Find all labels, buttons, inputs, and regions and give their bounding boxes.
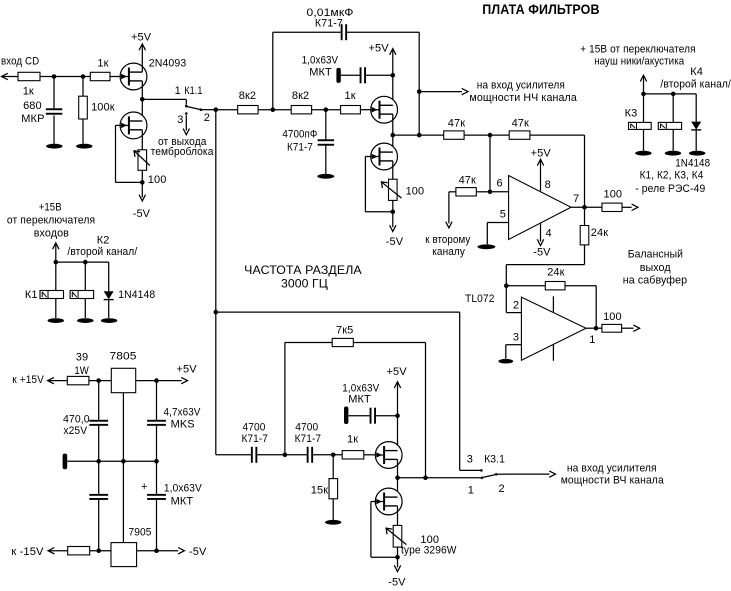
wire input to gate xyxy=(40,76,120,78)
wire Q2 source to trimmer xyxy=(141,130,143,150)
svg-text:МКТ: МКТ xyxy=(309,66,332,78)
svg-text:/второй канал/: /второй канал/ xyxy=(660,78,731,90)
wire Q4 gate feedback xyxy=(365,157,392,212)
wire relay bus left xyxy=(56,261,109,263)
svg-text:100: 100 xyxy=(603,311,622,323)
node N output U1 xyxy=(582,205,587,210)
node P2 xyxy=(83,260,88,265)
svg-text:100: 100 xyxy=(604,188,623,200)
svg-text:100: 100 xyxy=(148,174,167,186)
resistor 100 output U2 xyxy=(602,311,622,332)
svg-text:К1.1: К1.1 xyxy=(184,85,202,97)
svg-text:3: 3 xyxy=(467,454,473,466)
label К1 К2 К3 К4 реле РЭС-49 xyxy=(635,170,705,195)
capacitor 4700pF K71-7 shunt xyxy=(282,110,334,174)
wire 47k to 47k xyxy=(464,134,509,136)
ground K4 xyxy=(665,151,681,156)
node P1 xyxy=(54,260,59,265)
svg-text:на вход усилителя: на вход усилителя xyxy=(477,80,565,92)
ground under 4700pF xyxy=(317,174,334,179)
resistor 39 1W xyxy=(67,376,89,384)
switch K3.1 contact 1 xyxy=(468,477,483,497)
ground under 100k xyxy=(76,144,92,149)
capacitor 680 MKP xyxy=(21,77,62,144)
svg-text:к -15V: к -15V xyxy=(11,546,44,558)
pin 2 wire xyxy=(506,300,521,313)
resistor 47k input xyxy=(444,118,466,140)
wire node D down to HPF input xyxy=(215,110,217,455)
svg-text:+5V: +5V xyxy=(387,366,408,378)
wire Q5 source rail xyxy=(397,459,399,497)
svg-text:2: 2 xyxy=(513,300,519,312)
svg-text:8: 8 xyxy=(545,179,551,191)
svg-text:1,0х63V: 1,0х63V xyxy=(302,54,339,66)
wire PSU mid rail xyxy=(67,460,156,462)
diode 1N4148 left xyxy=(104,262,156,318)
ground under 680 cap xyxy=(46,144,62,149)
power -5V HPF xyxy=(388,557,406,588)
resistor 24k to U2 xyxy=(580,226,608,245)
power stub bottom U2 xyxy=(552,345,554,361)
wire Q6 gate feedback xyxy=(371,502,398,558)
svg-text:3: 3 xyxy=(513,331,519,343)
svg-text:К71-7: К71-7 xyxy=(315,18,343,30)
wire HPF input xyxy=(216,454,251,456)
label +15В от переключателя входов xyxy=(7,201,95,239)
power +5V stage1 xyxy=(131,31,152,72)
svg-text:К71-7: К71-7 xyxy=(295,433,322,445)
node T1 feedback tap HPF xyxy=(283,453,288,458)
svg-text:2N4093: 2N4093 xyxy=(149,58,187,70)
pin 3 wire xyxy=(506,331,522,358)
svg-text:6: 6 xyxy=(497,178,503,190)
ground K1 xyxy=(48,318,64,323)
relay K3 coil xyxy=(625,94,652,151)
power -5V stage1 xyxy=(133,182,151,220)
ground bar PSU xyxy=(63,454,68,470)
svg-text:8к2: 8к2 xyxy=(239,90,256,102)
svg-text:15к: 15к xyxy=(311,485,328,497)
ground U2 pin3 xyxy=(498,359,513,364)
wire contact 3 from tone block with arrow xyxy=(183,115,189,135)
svg-text:+5V: +5V xyxy=(531,147,552,159)
regulator 7805 label xyxy=(110,351,137,363)
capacitor 4700 K71-7 first xyxy=(242,422,269,463)
svg-text:5: 5 xyxy=(500,208,506,220)
svg-text:К71-7: К71-7 xyxy=(242,433,269,445)
node H on +5V rail xyxy=(391,73,396,78)
svg-text:каналу: каналу xyxy=(432,246,465,258)
wire Q2 gate feedback xyxy=(116,125,143,182)
node F cap tap xyxy=(324,107,329,112)
power +15V arrow relay right xyxy=(640,75,646,94)
node S branch xyxy=(214,310,219,315)
svg-text:39: 39 xyxy=(76,351,88,363)
svg-text:24к: 24к xyxy=(591,227,608,239)
wire trimmer to node X xyxy=(397,547,399,557)
title label ПЛАТА ФИЛЬТРОВ xyxy=(482,2,599,17)
node PS2 xyxy=(154,378,159,383)
resistor 7k5 feedback HPF xyxy=(285,324,426,477)
wire 47k to node M xyxy=(476,191,490,193)
wire resistor to 7905 xyxy=(90,550,111,552)
svg-text:4,7х63V: 4,7х63V xyxy=(164,407,201,419)
node T2 15k tap xyxy=(331,453,336,458)
svg-text:4700: 4700 xyxy=(295,422,318,434)
svg-text:темброблока: темброблока xyxy=(151,146,215,158)
capacitor 4700 K71-7 second xyxy=(295,422,322,463)
wire node D to R 8k2 xyxy=(216,109,238,111)
wire 7805 to +5V arrow xyxy=(136,364,198,384)
wire 1k to Q5 gate xyxy=(364,454,376,456)
node E feedback tap xyxy=(271,107,276,112)
wire Q4 source to trimmer xyxy=(392,161,394,179)
label ЧАСТОТА РАЗДЕЛА 3000 ГЦ xyxy=(244,264,362,291)
svg-text:+5V: +5V xyxy=(177,364,198,376)
wire between 8k2 resistors xyxy=(258,109,291,111)
wire feedback top to output column xyxy=(530,134,585,136)
svg-text:1N4148: 1N4148 xyxy=(675,158,710,170)
svg-text:100к: 100к xyxy=(91,102,115,114)
ground diode right xyxy=(689,151,705,156)
switch K3.1 contact 3 xyxy=(467,454,483,472)
resistor 1k input xyxy=(18,72,40,97)
label к +15V with arrow xyxy=(12,374,67,386)
svg-text:выход: выход xyxy=(640,262,671,274)
label TL072 xyxy=(465,293,495,305)
svg-text:1W: 1W xyxy=(74,365,89,377)
power -5V LPF xyxy=(386,212,404,248)
node I LPF output xyxy=(391,133,396,138)
wire node B to switch K1.1 xyxy=(142,99,186,104)
wire 8k2 to 1k xyxy=(312,109,341,111)
wire contact2 to node D xyxy=(202,109,216,111)
pin 6 label xyxy=(497,178,503,190)
svg-text:от переключателя: от переключателя xyxy=(7,214,95,226)
svg-text:к второму: к второму xyxy=(425,234,470,246)
node PS5 xyxy=(154,459,159,464)
node K xyxy=(391,210,396,215)
pin 1 output wire xyxy=(586,328,602,346)
svg-text:1к: 1к xyxy=(345,90,356,102)
node M pin6 junction xyxy=(488,190,493,195)
switch K1.1 contact 1 xyxy=(175,85,188,107)
svg-text:4700: 4700 xyxy=(243,422,266,434)
ground K2 xyxy=(77,318,93,323)
power stub top U2 xyxy=(552,296,554,312)
svg-text:+ 15В от переключателя: + 15В от переключателя xyxy=(580,44,695,56)
node D xyxy=(214,107,219,112)
switch K3.1 arm xyxy=(483,475,496,478)
node V HPF output xyxy=(395,476,400,481)
svg-text:мощности ВЧ канала: мощности ВЧ канала xyxy=(561,474,665,486)
svg-text:MKS: MKS xyxy=(171,418,195,430)
wire Q3 source rail xyxy=(392,114,394,152)
regulator 7805 xyxy=(111,368,135,392)
svg-text:type 3296W: type 3296W xyxy=(401,545,457,557)
node PS4 xyxy=(121,459,126,464)
wire 7905 to -5V arrow xyxy=(137,546,207,558)
node PS3 xyxy=(96,459,101,464)
node L xyxy=(488,133,493,138)
transistor Q2 lower JFET xyxy=(120,112,147,139)
node вход CD label xyxy=(1,56,39,68)
svg-text:7: 7 xyxy=(573,193,579,205)
transistor Q3 upper JFET LPF xyxy=(371,96,398,123)
label на вход усилителя мощности ВЧ канала xyxy=(561,462,665,486)
svg-text:МКТ: МКТ xyxy=(171,496,194,508)
svg-text:1N4148: 1N4148 xyxy=(118,289,155,301)
transistor Q6 lower JFET HPF xyxy=(375,488,402,515)
capacitor 0.01uF K71-7 feedback xyxy=(273,7,419,135)
svg-text:+5V: +5V xyxy=(369,42,390,54)
svg-text:вход CD: вход CD xyxy=(1,56,39,68)
svg-text:1: 1 xyxy=(468,484,474,496)
svg-text:+5V: +5V xyxy=(131,31,152,43)
svg-text:2: 2 xyxy=(499,483,505,495)
power -5V U1 pin4 xyxy=(533,223,552,258)
trimmer 100 type 3296W xyxy=(386,525,457,556)
capacitor 1.0x63V MKT bypass xyxy=(302,54,393,83)
wire Q1 source to Q2 drain xyxy=(141,81,143,121)
node Q2 xyxy=(671,92,676,97)
svg-text:К1: К1 xyxy=(25,289,38,301)
switch K1.1 label xyxy=(184,85,202,97)
node W feedback junction xyxy=(423,476,428,481)
wire feedback column xyxy=(584,135,586,225)
svg-text:1к: 1к xyxy=(347,433,358,445)
wire trimmer to node C xyxy=(141,170,143,182)
svg-text:47к: 47к xyxy=(459,174,476,186)
svg-text:К3: К3 xyxy=(625,107,638,119)
label к -15V with arrow xyxy=(11,546,67,558)
svg-text:470,0: 470,0 xyxy=(63,414,90,426)
relay K2 coil xyxy=(70,262,94,318)
svg-text:ТL072: ТL072 xyxy=(465,293,495,305)
switch K3.1 label xyxy=(484,454,505,466)
label к второму каналу xyxy=(425,234,470,258)
wire cap2 to 1k xyxy=(313,454,342,456)
svg-text:+15В: +15В xyxy=(39,201,62,213)
svg-text:мощности НЧ канала: мощности НЧ канала xyxy=(469,92,577,104)
node R output U2 xyxy=(594,326,599,331)
capacitor 1.0x63V MKT polarized xyxy=(141,461,202,550)
capacitor below 470 xyxy=(89,461,108,550)
resistor 100 output U1 xyxy=(602,188,622,211)
switch K3.1 contact 2 xyxy=(495,473,505,495)
svg-text:/второй канал/: /второй канал/ xyxy=(67,246,138,258)
node O U2 input node xyxy=(504,283,509,288)
svg-text:К71-7: К71-7 xyxy=(287,142,313,154)
ground U1 pin5 xyxy=(477,244,495,249)
svg-text:МКР: МКР xyxy=(21,113,44,125)
wire node L down to pin6 xyxy=(489,135,491,192)
svg-text:на сабвуфер: на сабвуфер xyxy=(623,275,687,287)
resistor 1k gate xyxy=(90,58,110,81)
svg-text:- реле РЭС-49: - реле РЭС-49 xyxy=(635,183,705,195)
svg-text:на вход усилителя: на вход усилителя xyxy=(567,462,657,474)
svg-text:ЧАСТОТА РАЗДЕЛА: ЧАСТОТА РАЗДЕЛА xyxy=(244,264,362,277)
svg-text:3: 3 xyxy=(177,114,183,126)
svg-text:х25V: х25V xyxy=(63,425,87,437)
trimmer 100 LPF xyxy=(381,179,424,200)
node A1 xyxy=(52,74,57,79)
wire input with left arrow xyxy=(2,73,19,79)
node PS7 xyxy=(154,548,159,553)
resistor input -15V xyxy=(68,547,90,555)
svg-text:7к5: 7к5 xyxy=(336,324,353,336)
regulator 7905 xyxy=(111,543,137,567)
pin 5 wire and label xyxy=(487,208,508,244)
node PS1 xyxy=(96,378,101,383)
node U on +5V rail HPF xyxy=(395,413,400,418)
svg-text:7905: 7905 xyxy=(129,526,152,538)
svg-text:К1, К2, К3, К4: К1, К2, К3, К4 xyxy=(640,170,704,182)
svg-text:1: 1 xyxy=(589,334,595,346)
resistor 8k2 first xyxy=(238,90,258,114)
node Q1 xyxy=(641,92,646,97)
resistor 24k feedback U2 xyxy=(506,267,596,329)
wire 7805 mid pin xyxy=(122,393,124,462)
resistor 1k LPF xyxy=(341,90,361,114)
svg-text:4700пФ: 4700пФ xyxy=(282,129,317,141)
switch K1.1 contact 2 xyxy=(200,108,210,124)
ground diode left xyxy=(101,318,117,323)
power +5V HPF xyxy=(387,366,408,451)
svg-text:1к: 1к xyxy=(23,86,34,98)
relay K4 coil xyxy=(658,94,681,151)
wire cap1 to cap2 xyxy=(257,454,307,456)
transistor Q5 upper JFET HPF xyxy=(375,442,402,469)
wire relay bus right xyxy=(644,93,697,95)
wire Q6 source to trimmer xyxy=(397,506,399,526)
node G output tap to amp xyxy=(417,89,422,94)
svg-text:-5V: -5V xyxy=(133,208,151,220)
svg-text:входов: входов xyxy=(34,228,69,240)
pin 7 output wire xyxy=(571,193,602,207)
resistor 15k shunt xyxy=(311,455,338,520)
wire to HF power amp with arrow xyxy=(497,471,555,477)
switch K1.1 contact 3 xyxy=(177,112,187,126)
capacitor 470.0 x25V xyxy=(63,381,108,462)
regulator 7905 label xyxy=(129,526,152,538)
svg-text:-5V: -5V xyxy=(533,247,551,259)
svg-text:-5V: -5V xyxy=(386,236,404,248)
wire 1k to Q3 gate xyxy=(360,109,370,111)
label +15В от переключателя наушники/акустика xyxy=(580,44,695,68)
wire 24k down to U2 pin2 node xyxy=(506,245,584,313)
svg-text:К2: К2 xyxy=(97,235,110,247)
svg-text:1: 1 xyxy=(175,85,181,97)
wire trimmer to node K xyxy=(392,200,394,211)
wire output to LF power amp with arrow xyxy=(419,88,468,94)
resistor 47k to second channel xyxy=(456,174,476,196)
svg-text:К3.1: К3.1 xyxy=(484,454,505,466)
svg-text:к +15V: к +15V xyxy=(12,374,44,386)
switch K1.1 arm xyxy=(187,107,200,110)
wire branch to switch K3.1 contact3 xyxy=(216,312,480,470)
wire 100 to arrow out U2 xyxy=(622,325,640,331)
power +5V U1 pin8 xyxy=(531,147,552,191)
svg-text:24к: 24к xyxy=(547,267,564,279)
svg-text:Балансный: Балансный xyxy=(628,248,683,260)
power +15V arrow relay left xyxy=(53,243,59,262)
node A2 xyxy=(81,74,86,79)
svg-text:2: 2 xyxy=(204,112,210,124)
resistor 8k2 second xyxy=(291,90,311,114)
relay K1 coil xyxy=(25,262,64,318)
svg-text:100: 100 xyxy=(406,186,425,198)
transistor Q1 2N4093 upper JFET xyxy=(120,58,186,90)
wire 39 to 7805 xyxy=(89,380,111,382)
node J xyxy=(417,133,422,138)
ground K3 xyxy=(635,151,651,156)
svg-text:науш ники/акустика: науш ники/акустика xyxy=(594,55,685,67)
wire node V right to contact1 xyxy=(398,477,481,479)
wire 47k to second channel with arrow xyxy=(446,192,456,228)
svg-text:4: 4 xyxy=(546,227,552,239)
capacitor 4.7x63V MKS xyxy=(147,381,201,462)
svg-text:3000 ГЦ: 3000 ГЦ xyxy=(281,277,328,290)
resistor 1k HPF xyxy=(342,433,364,459)
wire node M to pin 6 xyxy=(490,191,509,193)
label от выхода темброблока xyxy=(151,136,215,158)
wire 100 to arrow out xyxy=(622,204,638,210)
svg-text:К4: К4 xyxy=(690,66,703,78)
wire node I right xyxy=(393,134,444,136)
op-amp U2 xyxy=(521,297,586,360)
trimmer 100 stage1 xyxy=(134,150,166,186)
ground under 15k xyxy=(325,520,341,525)
svg-text:-5V: -5V xyxy=(189,546,207,558)
power +5V LPF xyxy=(369,42,397,105)
wire 7905 mid pin xyxy=(122,461,124,542)
node C xyxy=(140,180,145,185)
label 39 1W xyxy=(74,351,89,377)
node X xyxy=(395,555,400,560)
svg-text:МКТ: МКТ xyxy=(348,394,371,406)
node B output of stage1 xyxy=(140,97,145,102)
label К4 /второй канал/ xyxy=(660,66,731,91)
svg-text:680: 680 xyxy=(23,100,42,112)
svg-text:47к: 47к xyxy=(448,118,465,130)
svg-text:47к: 47к xyxy=(512,118,529,130)
resistor 47k feedback top xyxy=(509,118,530,140)
svg-text:7805: 7805 xyxy=(110,351,137,363)
label Балансный выход на сабвуфер xyxy=(623,248,687,286)
svg-text:8к2: 8к2 xyxy=(292,90,309,102)
svg-text:1,0х63V: 1,0х63V xyxy=(164,483,203,495)
svg-text:1к: 1к xyxy=(97,58,108,70)
node PS6 xyxy=(96,548,101,553)
svg-text:-5V: -5V xyxy=(388,577,406,589)
diode 1N4148 right xyxy=(675,94,710,170)
resistor 100k xyxy=(79,77,115,144)
op-amp U1 xyxy=(509,176,571,240)
label К2 /второй канал/ xyxy=(67,235,138,258)
transistor Q4 lower JFET LPF xyxy=(371,143,398,170)
label на вход усилителя мощности НЧ канала xyxy=(469,80,577,105)
svg-text:ПЛАТА ФИЛЬТРОВ: ПЛАТА ФИЛЬТРОВ xyxy=(482,2,599,17)
svg-text:+: + xyxy=(141,481,148,493)
capacitor 1.0x63V MKT bypass HPF xyxy=(342,383,397,425)
